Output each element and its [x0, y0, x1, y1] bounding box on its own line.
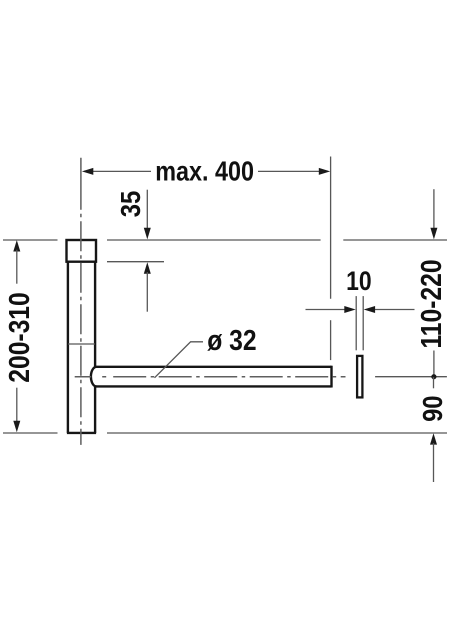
wall flange plate	[357, 356, 362, 398]
dim max400 line right	[258, 170, 328, 172]
dim 10 extension line right	[362, 296, 364, 350]
wall reference line top middle	[107, 239, 321, 241]
dim 35 upper arrow	[144, 228, 151, 240]
svg-text:90: 90	[416, 395, 448, 421]
dim 35 lower arrow	[144, 262, 151, 273]
dim 10 left line	[306, 309, 347, 311]
centerline extension right	[375, 376, 447, 378]
leader line dia32	[155, 342, 204, 378]
dim max400 arrow left	[82, 168, 93, 175]
dim 110-220 top arrow	[430, 228, 437, 240]
dim 200-310 bottom stem	[16, 388, 18, 423]
svg-text:110-220: 110-220	[415, 259, 447, 348]
siphon vertical pipe body	[67, 262, 96, 433]
svg-text:ø 32: ø 32	[207, 324, 256, 356]
dim 35 upper stem	[146, 190, 148, 229]
dim 110-220 dot	[431, 374, 436, 379]
dim 90 top leg	[433, 377, 435, 388]
dim 10 left arrow	[344, 306, 355, 313]
horizontal centerline	[75, 376, 346, 378]
dim 200-310 top arrow	[13, 240, 20, 251]
dim 110-220 bottom leg	[433, 351, 435, 378]
dim 10 right line	[374, 309, 415, 311]
dim 90 bottom stem	[433, 443, 435, 482]
horizontal outlet pipe	[96, 366, 332, 388]
bottom reference line left tick	[3, 432, 58, 434]
svg-text:10: 10	[346, 266, 372, 296]
bottom reference line right	[107, 432, 447, 434]
dim 90 bottom arrow	[430, 433, 437, 444]
dim max400 right extension line upper	[330, 157, 332, 299]
dim 35 lower stem	[146, 272, 148, 312]
rim line 35 lower	[107, 261, 164, 263]
dim max400 right extension line lower	[330, 320, 332, 360]
dim 200-310 bottom arrow	[13, 421, 20, 432]
svg-text:max. 400: max. 400	[155, 157, 254, 187]
wall reference line top left tick	[3, 239, 58, 241]
svg-text:35: 35	[114, 191, 146, 217]
pipe joint line	[68, 343, 95, 345]
vertical centerline	[80, 158, 82, 445]
siphon inlet socket	[67, 240, 97, 262]
wall reference line top right	[343, 239, 447, 241]
outlet pipe rounded end cap	[91, 367, 97, 387]
dim 200-310 top stem	[16, 250, 18, 284]
dim max400 line left	[84, 170, 151, 172]
dim 10 right arrow	[364, 306, 375, 313]
dim 110-220 top stem	[433, 189, 435, 229]
svg-text:200-310: 200-310	[3, 292, 35, 382]
dim 10 extension line left	[355, 296, 357, 350]
dim max400 arrow right	[319, 168, 330, 175]
